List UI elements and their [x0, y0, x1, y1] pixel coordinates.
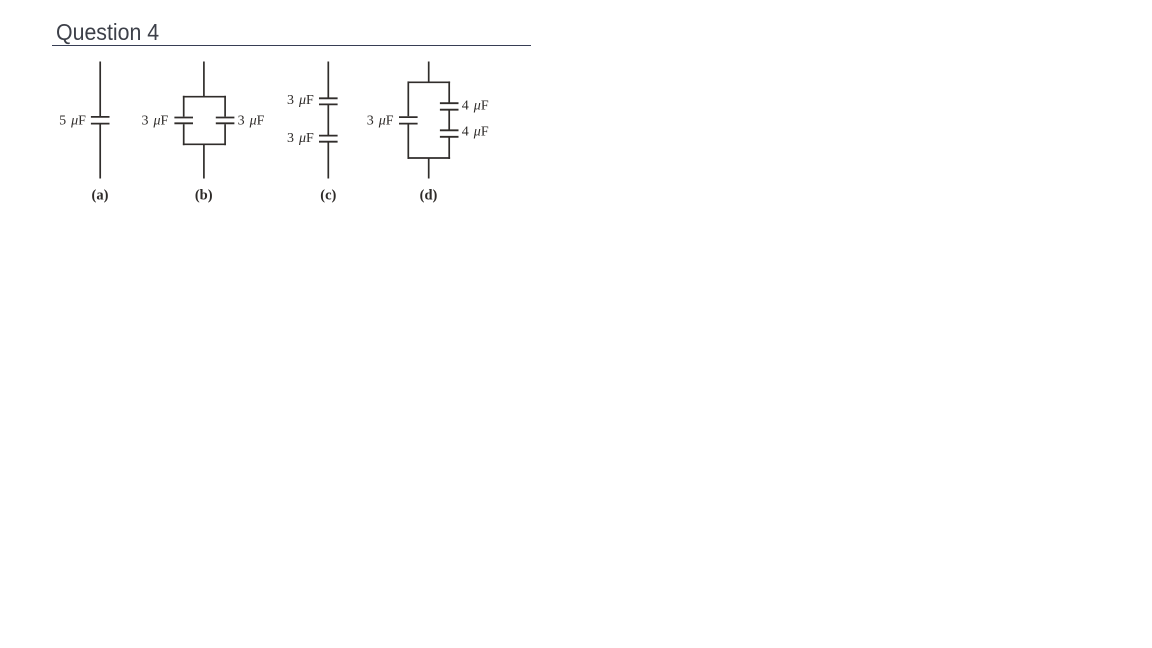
circuit (b) : top edge wire	[183, 96, 226, 98]
svg-text:3 μF: 3 μF	[238, 113, 265, 128]
capacitor C1 5uF plates	[91, 117, 110, 124]
title: Question 4	[56, 21, 159, 44]
svg-text:3 μF: 3 μF	[141, 113, 168, 128]
value label 3 uF (b left)	[141, 113, 168, 128]
caption (d)	[420, 187, 438, 203]
value label 3 uF (b right)	[238, 113, 265, 128]
circuit (d) : bottom wire	[428, 158, 430, 179]
svg-text:3 μF: 3 μF	[367, 113, 394, 128]
circuit (a) : wire bottom segment	[99, 125, 101, 179]
capacitor C6 3uF left branch plates	[399, 117, 418, 124]
circuit (b) : right edge lower wire	[224, 124, 226, 145]
circuit (b) : left edge upper wire	[183, 96, 185, 117]
svg-text:3 μF: 3 μF	[287, 93, 314, 108]
svg-text:(c): (c)	[320, 187, 336, 203]
svg-text:(a): (a)	[92, 187, 109, 203]
circuit (d) : right edge middle wire	[448, 110, 450, 130]
value label 3 uF (c lower)	[287, 131, 314, 146]
circuit (d) : top wire	[428, 62, 430, 83]
caption (b)	[195, 187, 213, 203]
title underline rule	[52, 45, 531, 47]
caption (a)	[92, 187, 109, 203]
svg-text:(d): (d)	[420, 187, 438, 203]
circuit (b) : bottom edge wire	[183, 143, 226, 145]
capacitor C2 3uF left plates	[174, 118, 193, 124]
circuit (c) : top wire	[327, 62, 329, 98]
value label 4 uF (d upper)	[462, 98, 489, 113]
circuit (d) : top edge wire	[408, 81, 451, 83]
circuit (b) : bottom wire	[203, 144, 205, 178]
circuit (c) : bottom wire	[327, 142, 329, 178]
capacitor C3 3uF right plates	[216, 118, 235, 124]
capacitor C7 4uF upper plates	[440, 103, 459, 110]
circuit (d) : left edge upper wire	[407, 81, 409, 116]
capacitor C5 3uF lower plates	[319, 136, 338, 142]
svg-text:(b): (b)	[195, 187, 213, 203]
value label 3 uF (c upper)	[287, 93, 314, 108]
value label 3 uF (d left)	[367, 113, 394, 128]
value label 4 uF (d lower)	[462, 125, 489, 140]
capacitor C4 3uF upper plates	[319, 98, 338, 104]
svg-text:3 μF: 3 μF	[287, 131, 314, 146]
caption (c)	[320, 187, 336, 203]
circuit (b) : right edge upper wire	[224, 96, 226, 117]
circuit (b) : left edge lower wire	[183, 124, 185, 145]
capacitor C8 4uF lower plates	[440, 130, 459, 137]
circuit (d) : bottom edge wire	[408, 157, 451, 159]
value label 5 uF	[59, 113, 86, 128]
circuit (d) : right edge lower wire	[448, 137, 450, 159]
circuit (d) : right edge upper wire	[448, 81, 450, 102]
svg-text:4 μF: 4 μF	[462, 98, 489, 113]
circuit (a) : wire top segment	[99, 62, 101, 117]
svg-text:4 μF: 4 μF	[462, 125, 489, 140]
circuit (d) : left edge lower wire	[407, 125, 409, 159]
circuit (c) : middle wire	[327, 105, 329, 135]
svg-text:5 μF: 5 μF	[59, 113, 86, 128]
circuit (b) : top wire	[203, 62, 205, 97]
